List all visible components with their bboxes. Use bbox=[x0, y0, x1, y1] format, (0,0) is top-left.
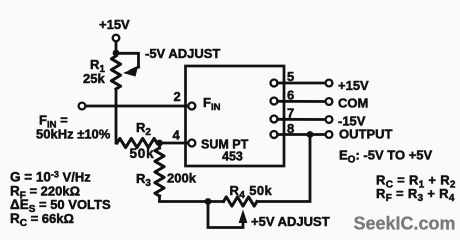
svg-text:25k: 25k bbox=[83, 71, 105, 86]
pin 7 circle bbox=[271, 116, 278, 123]
svg-text:R2: R2 bbox=[136, 120, 151, 138]
node FIN input terminal bbox=[79, 103, 86, 110]
IC U1 box 453 bbox=[186, 66, 285, 166]
node -15V terminal bbox=[326, 116, 333, 123]
svg-text:4: 4 bbox=[173, 128, 181, 143]
pin 8 circle bbox=[271, 131, 278, 138]
wire R1 wiper loop bbox=[116, 53, 139, 67]
wire R3 bottom corner bbox=[160, 196, 207, 202]
pin 2 circle bbox=[188, 103, 195, 110]
svg-text:-5V ADJUST: -5V ADJUST bbox=[145, 46, 220, 61]
wire junction to R4 left end bbox=[208, 200, 224, 203]
resistor R4 bbox=[224, 197, 258, 206]
wire junction to R3 top bbox=[158, 143, 161, 148]
pin 6 circle bbox=[271, 98, 278, 105]
node +15V terminal bbox=[113, 35, 120, 42]
pin 4 circle bbox=[188, 140, 195, 147]
wire pin 7 to -15V terminal bbox=[278, 118, 326, 121]
svg-text:+15V: +15V bbox=[99, 17, 130, 32]
node OUTPUT terminal bbox=[326, 131, 333, 138]
wire R1 wiper arrow shaft bbox=[131, 67, 139, 71]
resistor R3 bbox=[155, 148, 164, 196]
svg-text:50kHz ±10%: 50kHz ±10% bbox=[36, 127, 111, 142]
svg-text:453: 453 bbox=[222, 150, 243, 164]
junction R2-R3 sum node bbox=[156, 140, 163, 147]
resistor R1 bbox=[111, 56, 120, 89]
wire pin 5 to +15V terminal bbox=[278, 82, 326, 85]
wire FIN input terminal to pin 2 bbox=[86, 105, 188, 108]
wire R4 right end up to pin 8 net bbox=[257, 136, 310, 202]
svg-text:+5V ADJUST: +5V ADJUST bbox=[251, 214, 330, 229]
node +15V right terminal bbox=[326, 80, 333, 87]
svg-text:8: 8 bbox=[287, 121, 294, 136]
svg-text:RC = 66kΩ: RC = 66kΩ bbox=[10, 211, 74, 229]
wire +15V terminal to R1 top junction bbox=[115, 42, 118, 52]
svg-text:OUTPUT: OUTPUT bbox=[339, 126, 393, 141]
svg-text:EO: -5V TO +5V: EO: -5V TO +5V bbox=[339, 147, 432, 165]
svg-text:SeekIC.com: SeekIC.com bbox=[354, 214, 456, 234]
wire pin 8 to OUTPUT terminal bbox=[278, 133, 326, 136]
R4 wiper arrowhead bbox=[239, 210, 248, 224]
svg-text:FIN: FIN bbox=[203, 95, 221, 113]
wire R4 wiper loop bbox=[208, 202, 243, 228]
svg-text:R3: R3 bbox=[136, 171, 151, 189]
svg-text:7: 7 bbox=[287, 106, 294, 121]
svg-text:50k: 50k bbox=[130, 146, 155, 161]
junction R1 top bbox=[113, 50, 120, 57]
svg-text:6: 6 bbox=[287, 88, 294, 103]
node COM terminal bbox=[326, 98, 333, 105]
svg-text:G = 10-3 V/Hz: G = 10-3 V/Hz bbox=[10, 170, 91, 185]
R1 wiper arrowhead bbox=[123, 67, 138, 77]
resistor R2 bbox=[117, 138, 157, 147]
wire R1 bottom down through Fin wire to R2 left end bbox=[115, 89, 118, 143]
wire R2 right to pin 4 bbox=[157, 142, 188, 145]
svg-text:200k: 200k bbox=[167, 171, 197, 186]
wire pin 6 to COM terminal bbox=[278, 100, 326, 103]
pin 5 circle bbox=[271, 80, 278, 87]
svg-text:2: 2 bbox=[174, 89, 181, 104]
svg-text:COM: COM bbox=[338, 96, 368, 111]
svg-text:5: 5 bbox=[287, 69, 294, 84]
junction pin 8 output node bbox=[307, 131, 314, 138]
svg-text:+15V: +15V bbox=[338, 78, 369, 93]
junction bottom wiper node bbox=[205, 198, 212, 205]
